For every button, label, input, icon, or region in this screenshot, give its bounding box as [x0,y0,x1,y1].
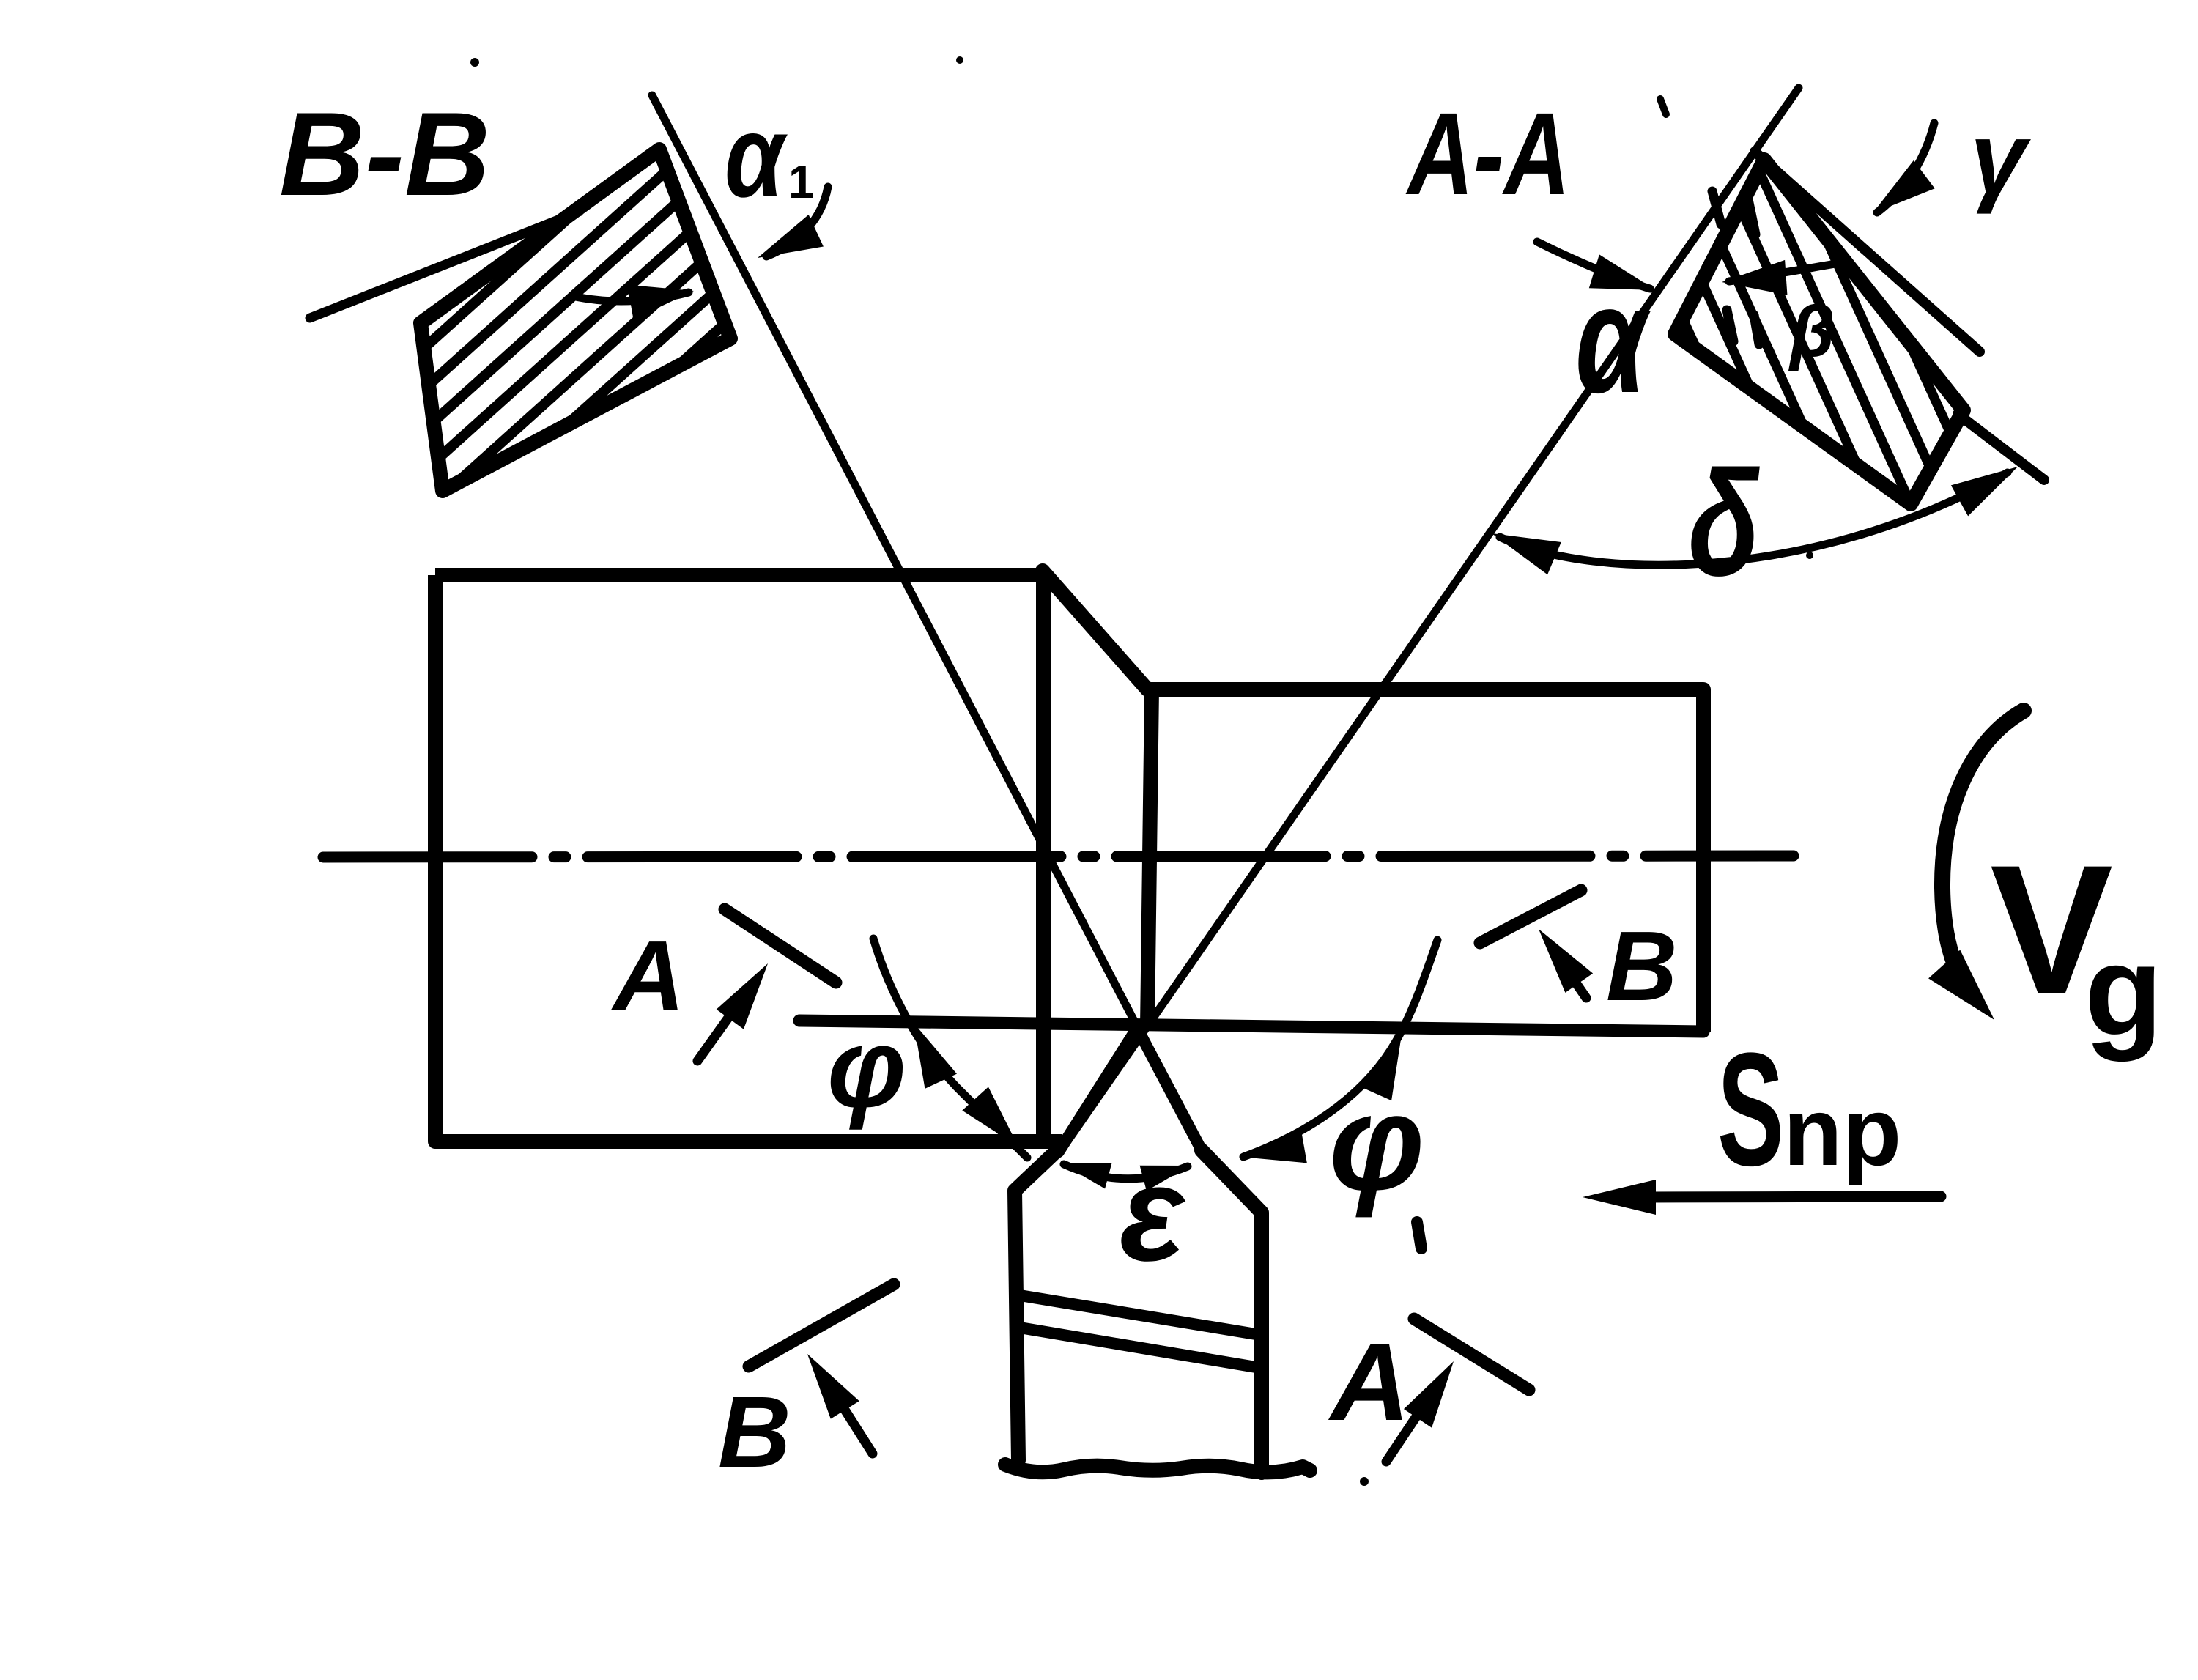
rake face extension line [1958,414,2044,480]
A-A cross-section outline [1675,160,1964,504]
machined surface line [799,1021,1703,1032]
angle delta arc [1500,473,2008,565]
tool body [1005,1150,1310,1473]
A-A section label [1405,89,1569,219]
section line A-A [1059,88,1799,1154]
section line B-B [652,95,1202,1150]
angle alpha arc [1537,242,1650,289]
svg-text:β: β [1788,291,1835,371]
angle delta label [1688,440,1760,607]
view A section plane slash (lower right) [1414,1319,1529,1390]
view A arrow (upper left) [697,999,741,1061]
svg-text:g: g [2084,919,2163,1062]
svg-text:B-B: B-B [279,88,490,221]
svg-text:A: A [611,920,685,1031]
svg-text:α: α [725,92,788,222]
view B section plane slash (lower left) [749,1284,894,1366]
view A section plane slash (upper left) [725,909,836,983]
ink speck 2 [1806,552,1813,559]
angle phi arc [873,939,1027,1158]
ink speck 5 [956,56,963,64]
tool insert boundary line 1 [1020,1295,1260,1335]
angle a1 label [725,92,788,222]
angle beta arc [1729,264,1835,281]
ink speck 3 [1360,1477,1369,1486]
angle a1 arc right segment [766,187,828,256]
A-A short hatch ticks [1712,191,1759,344]
svg-text:1: 1 [788,155,815,208]
svg-text:γ: γ [1970,102,2031,215]
tool secondary cutting edge [1137,1028,1202,1150]
B-B face tangent line [310,212,579,318]
tool main cutting edge [1059,1028,1137,1152]
tool insert boundary line 2 [1020,1328,1260,1368]
view B arrow (lower left) [838,1399,873,1454]
svg-text:φ: φ [827,1005,906,1131]
angle epsilon arc [1064,1164,1188,1179]
svg-text:B: B [1606,911,1678,1021]
ink speck 4 [1660,99,1666,114]
centerline (dash-dot) [323,856,1794,857]
feed Snp label [1717,1018,1784,1199]
shoulder chamfer line [1043,571,1147,689]
workpiece right rectangle [1147,689,1703,1032]
angle alpha label [1575,254,1651,425]
svg-text:S: S [1717,1018,1784,1199]
angle phi1 arc [1243,940,1437,1157]
view B arrow (right) [1564,965,1586,998]
svg-text:B: B [718,1376,791,1489]
ink speck 1 [470,58,479,67]
svg-text:A-A: A-A [1405,89,1569,219]
rake face trace line [1755,152,1980,352]
angle a1 arc left segment [572,292,689,301]
view B section plane slash (right) [1480,890,1581,943]
B-B cross-section outline [421,149,730,491]
angle gamma arc [1877,123,1934,212]
feed arrow [1648,1196,1941,1197]
svg-text:ε: ε [1120,1139,1186,1289]
cutting speed rotation arrow [1942,711,2024,993]
B-B cross-section hatching [396,57,747,661]
angle phi1 subscript tick [1417,1222,1421,1248]
view A arrow (lower right) [1386,1398,1429,1462]
svg-text:A: A [1328,1320,1410,1443]
workpiece left rectangle [435,575,1062,1141]
svg-text:nр: nр [1783,1078,1901,1185]
svg-text:δ: δ [1688,440,1760,607]
A-A cross-section hatching [1575,81,1990,520]
